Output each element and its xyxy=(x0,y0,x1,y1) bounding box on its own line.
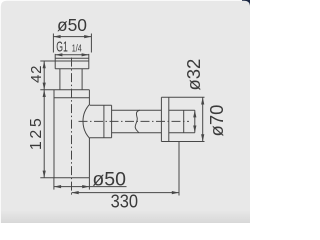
arrow dia32 up xyxy=(193,110,196,117)
svg-text:1/4: 1/4 xyxy=(72,44,82,55)
arrow G1 right xyxy=(82,53,89,56)
pipe break S-curve xyxy=(135,110,140,133)
arrow G1 left xyxy=(55,53,62,56)
flange top edge with right extension xyxy=(161,96,204,98)
svg-text:330: 330 xyxy=(111,191,138,211)
elbow nut left edge xyxy=(103,105,105,137)
arrow dia70 down xyxy=(201,134,204,141)
navy corner background top-right xyxy=(242,0,250,8)
arrow dia50 top right xyxy=(84,35,91,38)
extension left of bottom dia 50 xyxy=(53,178,55,190)
nut left edge xyxy=(54,54,56,69)
arrow dia50 bottom left xyxy=(54,185,61,188)
dim line diameter 70 xyxy=(202,97,204,141)
arrow dia32 down xyxy=(193,126,196,133)
arrow 42 up xyxy=(43,61,46,68)
tailpipe left edge xyxy=(59,69,61,90)
body right edge upper xyxy=(88,90,90,104)
arrow 42 down xyxy=(43,83,46,90)
elbow bottom edge xyxy=(90,137,112,139)
pipe bottom edge xyxy=(112,132,162,134)
arrow 125 down xyxy=(43,171,46,178)
center axis horizontal pipe (dash-dot) xyxy=(79,120,190,122)
bottom shade xyxy=(1,210,250,223)
dim line G1 1/4 xyxy=(55,54,89,56)
svg-text:ø70: ø70 xyxy=(206,105,227,137)
pipe bottom edge behind flange with extension xyxy=(169,132,195,134)
center axis vertical (dash-dot) xyxy=(71,58,73,196)
nut inner line xyxy=(55,60,89,62)
dim line 330 xyxy=(72,192,180,194)
extension tick left top xyxy=(52,34,54,53)
pipe top edge behind flange with extension xyxy=(169,109,195,111)
pipe top edge xyxy=(112,109,162,111)
extension right of 330 xyxy=(178,142,180,196)
42 extension line top xyxy=(40,60,55,62)
nut bottom edge xyxy=(55,68,89,70)
body right edge lower xyxy=(88,138,90,178)
pipe end cap xyxy=(183,110,185,133)
svg-text:ø50: ø50 xyxy=(57,15,87,35)
svg-text:ø50: ø50 xyxy=(92,169,126,191)
body bottom edge with left extension xyxy=(40,177,89,179)
nut top edge xyxy=(55,57,89,59)
svg-text:G1: G1 xyxy=(56,40,68,56)
arrow 330 right xyxy=(172,191,179,194)
tailpipe right edge xyxy=(81,69,83,90)
body top edge with left extension xyxy=(40,89,89,91)
collar bottom line xyxy=(54,97,89,99)
extension right of bottom dia 50 xyxy=(88,178,90,190)
dim line diameter 50 top xyxy=(53,36,91,38)
dim line diameter 50 bottom xyxy=(54,186,127,188)
42/125 dim line vertical xyxy=(43,61,45,178)
dim line diameter 32 xyxy=(194,110,196,133)
elbow top edge xyxy=(90,104,112,106)
arrow dia70 up xyxy=(201,97,204,104)
svg-text:125: 125 xyxy=(28,116,45,151)
svg-text:ø32: ø32 xyxy=(183,59,204,91)
extension tick right top xyxy=(90,34,92,53)
wall flange left edge xyxy=(160,97,162,141)
gray card xyxy=(1,1,250,223)
arrow dia50 bottom right xyxy=(82,185,89,188)
arrow dia50 top left xyxy=(53,35,60,38)
svg-text:42: 42 xyxy=(28,65,45,83)
ball arc of elbow xyxy=(83,104,90,138)
body left edge xyxy=(53,90,55,178)
flange bottom edge with right extension xyxy=(161,141,204,143)
nut right edge xyxy=(88,54,90,69)
elbow nut right edge xyxy=(111,105,113,137)
arrow 330 left xyxy=(72,191,79,194)
arrow 125 up xyxy=(43,90,46,97)
wall flange right edge xyxy=(168,97,170,141)
